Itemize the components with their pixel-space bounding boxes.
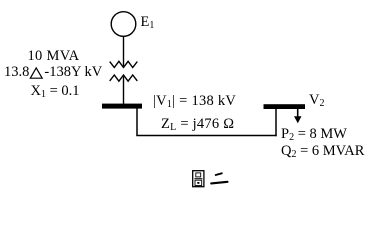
wire generator to transformer bbox=[123, 36, 125, 66]
bus 2 node V2 bbox=[264, 104, 306, 109]
transformer winding 1 (top zigzag) bbox=[110, 61, 138, 67]
caption glyph 圖 bbox=[193, 171, 204, 187]
label E1 bbox=[141, 15, 155, 30]
caption glyph 二 bbox=[211, 173, 227, 183]
label node V2 bbox=[309, 93, 324, 108]
wire bus 1 down bbox=[136, 109, 138, 136]
wire transformer to bus 1 bbox=[123, 77, 125, 104]
delta symbol in transformer rating label bbox=[30, 68, 42, 78]
load arrow at bus 2 bbox=[294, 109, 302, 124]
bus 1 node V1 bbox=[102, 104, 142, 109]
label P2 = 8 MW bbox=[281, 127, 347, 142]
label 10 MVA bbox=[28, 49, 80, 64]
label |V1| = 138 kV bbox=[153, 94, 236, 109]
generator E1 bbox=[111, 12, 136, 37]
label 13.8delta-138Y kV bbox=[4, 65, 102, 80]
label X1 = 0.1 bbox=[31, 84, 80, 99]
label ZL = j476 ohm bbox=[161, 117, 234, 132]
transformer winding 2 (bottom zigzag) bbox=[110, 75, 138, 81]
label Q2 = 6 MVAR bbox=[281, 144, 364, 159]
wire up to bus 2 bbox=[275, 109, 277, 137]
wire transmission line ZL horizontal bbox=[136, 135, 276, 137]
